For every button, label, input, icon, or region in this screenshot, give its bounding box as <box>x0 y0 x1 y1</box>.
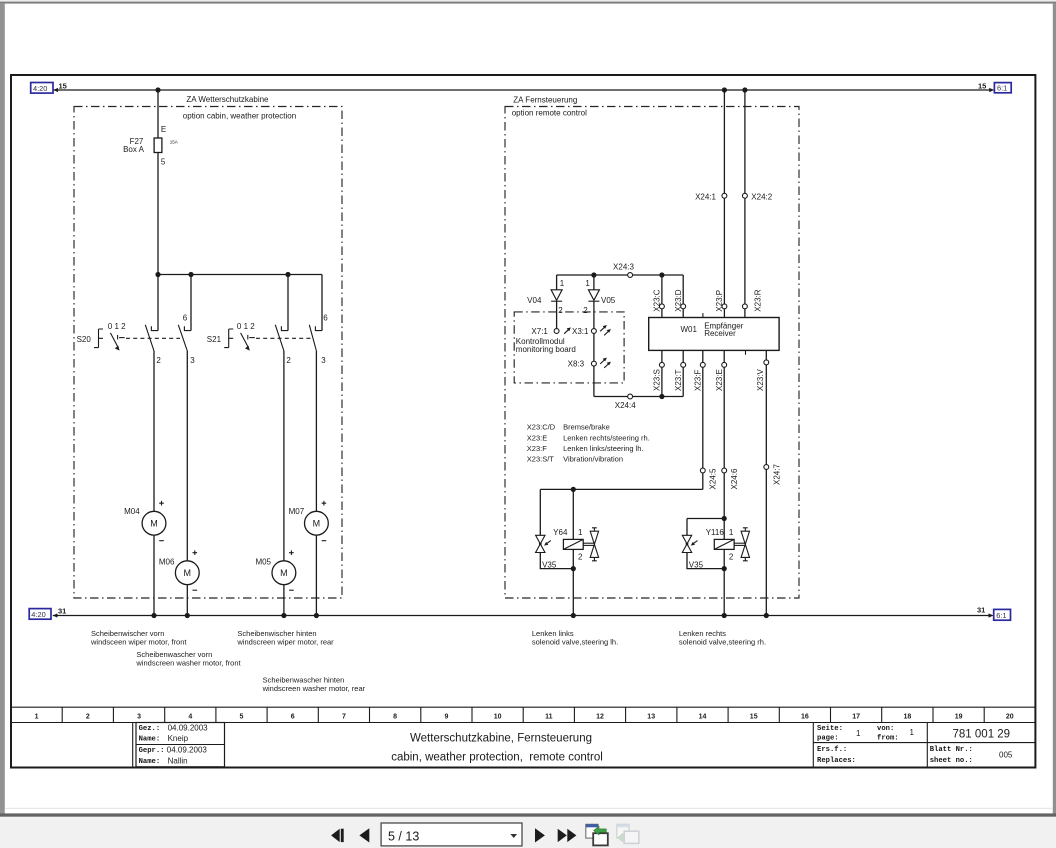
svg-text:from:: from: <box>877 735 899 743</box>
svg-text:5: 5 <box>161 158 166 167</box>
svg-text:2: 2 <box>558 306 563 315</box>
svg-text:1: 1 <box>910 728 915 737</box>
svg-text:X23:C: X23:C <box>653 289 662 311</box>
svg-text:7: 7 <box>342 713 346 720</box>
svg-text:6: 6 <box>323 314 328 323</box>
svg-text:sheet no.:: sheet no.: <box>930 757 973 765</box>
svg-text:X8:3: X8:3 <box>568 359 585 368</box>
svg-text:Name:: Name: <box>139 758 161 766</box>
svg-text:17: 17 <box>852 713 860 720</box>
svg-text:M: M <box>280 568 288 578</box>
svg-text:14: 14 <box>699 713 707 720</box>
svg-text:781 001 29: 781 001 29 <box>953 728 1011 740</box>
svg-text:15: 15 <box>750 713 758 720</box>
svg-text:M05: M05 <box>255 558 271 567</box>
svg-text:Nallin: Nallin <box>168 757 188 766</box>
svg-text:windscreen wiper motor, rear: windscreen wiper motor, rear <box>236 638 334 647</box>
svg-text:0 1 2: 0 1 2 <box>108 322 126 331</box>
svg-text:S20: S20 <box>77 335 92 344</box>
svg-text:15A: 15A <box>170 140 179 145</box>
svg-text:3: 3 <box>321 356 326 365</box>
svg-text:Box A: Box A <box>123 145 145 154</box>
svg-text:V05: V05 <box>601 296 616 305</box>
svg-text:31: 31 <box>977 606 985 615</box>
svg-text:9: 9 <box>444 713 448 720</box>
svg-text:X23:T: X23:T <box>674 370 683 391</box>
svg-text:X24:1: X24:1 <box>695 192 716 201</box>
svg-text:Gez.:: Gez.: <box>139 725 161 733</box>
svg-text:X23:F: X23:F <box>693 370 702 391</box>
svg-text:1: 1 <box>729 528 734 537</box>
svg-text:cabin, weather protection, re: cabin, weather protection, remote contro… <box>391 751 603 763</box>
svg-text:Receiver: Receiver <box>704 329 736 338</box>
svg-text:X3:1: X3:1 <box>572 327 589 336</box>
svg-text:005: 005 <box>999 750 1013 759</box>
svg-text:4:20: 4:20 <box>31 610 45 619</box>
svg-text:X24:3: X24:3 <box>613 263 634 272</box>
svg-text:Kneip: Kneip <box>168 734 189 743</box>
svg-text:Blatt Nr.:: Blatt Nr.: <box>930 746 973 754</box>
svg-text:S21: S21 <box>207 335 222 344</box>
svg-text:monitoring board: monitoring board <box>516 345 576 354</box>
svg-text:M04: M04 <box>124 507 140 516</box>
svg-text:8: 8 <box>393 713 397 720</box>
svg-text:V04: V04 <box>527 296 542 305</box>
svg-text:X23:P: X23:P <box>715 290 724 312</box>
svg-text:4: 4 <box>188 713 192 720</box>
svg-text:Bremse/brake: Bremse/brake <box>563 423 610 432</box>
svg-text:12: 12 <box>596 713 604 720</box>
svg-text:6:1: 6:1 <box>997 84 1007 93</box>
svg-text:5 / 13: 5 / 13 <box>388 829 419 843</box>
svg-text:2: 2 <box>86 713 90 720</box>
svg-text:W01: W01 <box>681 325 698 334</box>
svg-text:windscreen washer motor, front: windscreen washer motor, front <box>135 659 241 668</box>
svg-text:solenoid valve,steering rh.: solenoid valve,steering rh. <box>679 638 766 647</box>
svg-text:2: 2 <box>156 356 161 365</box>
svg-text:11: 11 <box>545 713 553 720</box>
svg-text:6: 6 <box>291 713 295 720</box>
svg-text:Ers.f.:: Ers.f.: <box>817 746 847 754</box>
svg-text:Lenken links/steering lh.: Lenken links/steering lh. <box>563 444 643 453</box>
svg-text:Seite:: Seite: <box>817 725 843 733</box>
svg-text:X23:C/D: X23:C/D <box>527 423 556 432</box>
svg-text:V35: V35 <box>689 561 704 570</box>
svg-text:Y64: Y64 <box>553 528 568 537</box>
svg-text:von:: von: <box>877 725 894 733</box>
svg-text:1: 1 <box>560 279 565 288</box>
svg-text:X23:S: X23:S <box>653 369 662 391</box>
svg-text:1: 1 <box>585 279 590 288</box>
svg-text:solenoid valve,steering lh.: solenoid valve,steering lh. <box>532 638 618 647</box>
svg-text:ZA Fernsteuerung: ZA Fernsteuerung <box>513 96 577 105</box>
svg-text:Vibration/vibration: Vibration/vibration <box>563 455 623 464</box>
svg-text:31: 31 <box>58 606 66 615</box>
svg-text:6:1: 6:1 <box>996 611 1006 620</box>
svg-text:19: 19 <box>955 713 963 720</box>
svg-text:ZA Wetterschutzkabine: ZA Wetterschutzkabine <box>186 95 269 104</box>
svg-text:M06: M06 <box>159 558 175 567</box>
svg-text:X24:7: X24:7 <box>772 464 781 485</box>
svg-text:15: 15 <box>59 81 67 90</box>
svg-text:Y116: Y116 <box>706 528 725 537</box>
svg-text:18: 18 <box>904 713 912 720</box>
svg-text:10: 10 <box>494 713 502 720</box>
svg-text:1: 1 <box>35 713 39 720</box>
svg-text:X24:2: X24:2 <box>751 192 772 201</box>
svg-text:windscreen washer motor, rear: windscreen washer motor, rear <box>262 684 366 693</box>
svg-text:Replaces:: Replaces: <box>817 757 856 765</box>
svg-text:page:: page: <box>817 735 839 743</box>
svg-text:20: 20 <box>1006 713 1014 720</box>
svg-text:X24:5: X24:5 <box>709 468 718 489</box>
svg-text:option remote control: option remote control <box>512 108 587 117</box>
svg-text:0 1 2: 0 1 2 <box>237 322 255 331</box>
svg-text:1: 1 <box>856 729 861 738</box>
svg-text:6: 6 <box>183 314 188 323</box>
svg-text:X23:V: X23:V <box>756 369 765 391</box>
svg-text:4:20: 4:20 <box>33 84 47 93</box>
svg-text:X23:R: X23:R <box>753 289 762 311</box>
svg-text:Wetterschutzkabine, Fernsteuer: Wetterschutzkabine, Fernsteuerung <box>410 732 592 744</box>
svg-text:5: 5 <box>240 713 244 720</box>
svg-text:X23:D: X23:D <box>674 289 683 311</box>
svg-text:2: 2 <box>729 552 734 561</box>
svg-text:option cabin, weather protecti: option cabin, weather protection <box>183 112 296 121</box>
svg-text:V35: V35 <box>542 561 557 570</box>
svg-text:2: 2 <box>583 306 588 315</box>
svg-text:E: E <box>161 125 166 134</box>
svg-text:X23:F: X23:F <box>527 444 547 453</box>
svg-text:16: 16 <box>801 713 809 720</box>
svg-text:04.09.2003: 04.09.2003 <box>167 746 208 755</box>
svg-text:X24:4: X24:4 <box>615 401 636 410</box>
svg-text:Lenken rechts/steering rh.: Lenken rechts/steering rh. <box>563 433 650 442</box>
svg-text:M: M <box>150 518 158 528</box>
svg-text:13: 13 <box>647 713 655 720</box>
svg-text:X23:E: X23:E <box>715 369 724 391</box>
svg-text:Gepr.:: Gepr.: <box>139 747 165 755</box>
svg-text:1: 1 <box>578 528 583 537</box>
svg-text:3: 3 <box>137 713 141 720</box>
svg-text:2: 2 <box>286 356 291 365</box>
svg-text:X23:S/T: X23:S/T <box>527 455 555 464</box>
svg-text:X7:1: X7:1 <box>531 327 548 336</box>
svg-text:windsceen wiper motor, front: windsceen wiper motor, front <box>90 638 187 647</box>
svg-text:X24:6: X24:6 <box>730 468 739 489</box>
svg-text:M: M <box>184 568 192 578</box>
svg-text:15: 15 <box>978 81 986 90</box>
svg-text:M07: M07 <box>289 507 305 516</box>
svg-text:2: 2 <box>578 552 583 561</box>
svg-text:3: 3 <box>190 356 195 365</box>
svg-text:X23:E: X23:E <box>527 433 547 442</box>
svg-text:04.09.2003: 04.09.2003 <box>168 723 209 732</box>
svg-text:Name:: Name: <box>139 736 161 744</box>
svg-text:M: M <box>313 518 321 528</box>
